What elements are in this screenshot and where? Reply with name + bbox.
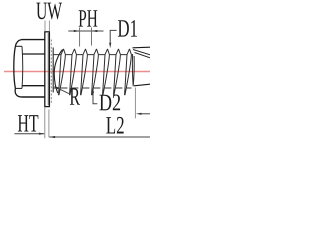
hex head top-left corner arc (15, 40, 21, 47)
thread crest 5 (103, 49, 110, 95)
thread crest 8 partial at point (132, 54, 134, 86)
D2 arrow up (92, 88, 94, 94)
thread root line top segments (53, 54, 127, 56)
label L2 (106, 117, 123, 134)
thread crest 1 (59, 49, 66, 95)
facet notch line top (15, 45, 22, 47)
hex head silhouette top edge (22, 39, 45, 41)
extension line drill point (134, 88, 136, 119)
thread crest 6 (114, 49, 121, 95)
hex head bottom-left corner arc (15, 88, 21, 97)
centerline (red axis) (4, 71, 150, 73)
D1 arrow down (109, 43, 111, 49)
HT arrow right (39, 133, 45, 135)
label D1 (118, 20, 137, 37)
facet notch line bottom (15, 87, 22, 89)
PH arrow left (74, 30, 80, 32)
thread crest 7 (125, 49, 132, 95)
drill point flute edge 1 (133, 50, 150, 55)
hex chamfer arc (21, 46, 24, 88)
extension line washer left face (44, 108, 46, 139)
extension line washer right face (48, 110, 50, 138)
right dimension line (cropped) (140, 113, 151, 115)
drill point flute edge 2 (135, 53, 151, 58)
UW extension line left (44, 21, 46, 32)
PH extension line right (91, 28, 93, 46)
right dimension arrow left (136, 113, 142, 115)
thread crest 2 (70, 49, 77, 95)
R arrowhead (54, 86, 59, 89)
hex head silhouette bottom edge (22, 96, 45, 98)
washer flange (45, 32, 50, 107)
R leader line (55, 87, 69, 94)
drill point top edge (133, 46, 151, 49)
label PH (79, 10, 98, 26)
UW extension line right (48, 21, 50, 32)
thread runout curve (54, 50, 62, 94)
label D2 (99, 95, 120, 111)
hex facet line lower (22, 85, 45, 87)
thread crest 4 (92, 49, 99, 95)
L2 arrow left (49, 136, 55, 138)
PH dimension line (68, 30, 103, 32)
PH arrow right (92, 30, 98, 32)
drill point bottom edge (134, 84, 150, 86)
HT dimension line (14, 133, 44, 135)
hidden line behind washer (50, 40, 52, 105)
L2 dimension line (49, 136, 150, 138)
hex head left end middle facet arc (14, 46, 16, 88)
PH extension line left (79, 28, 81, 47)
label HT (18, 115, 38, 131)
washer inner rim line (47, 33, 49, 105)
thread root line bottom segments (53, 87, 131, 89)
D1 leader line (110, 30, 116, 44)
D2 leader line (93, 91, 97, 104)
hex facet line upper (23, 53, 45, 55)
thread crest 3 (81, 49, 88, 95)
label UW (36, 3, 62, 20)
shank face line (52, 48, 54, 93)
label R (70, 88, 80, 104)
